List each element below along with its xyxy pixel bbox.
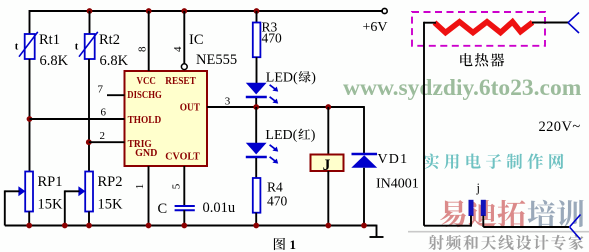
wire contact right lead xyxy=(483,216,569,228)
watermark slogan xyxy=(428,235,443,250)
wire Rt2 top lead xyxy=(89,11,91,34)
wire bottom ground rail xyxy=(5,225,377,227)
wire LED2-R4 xyxy=(255,158,257,179)
wire pin 2 TRIG xyxy=(89,141,125,143)
wire R3 top lead xyxy=(256,11,258,23)
LED D2 red xyxy=(246,143,278,164)
wire VD1 top lead xyxy=(363,106,365,153)
svg-text:GND: GND xyxy=(135,147,157,159)
wire pin 3 OUT net xyxy=(207,106,364,108)
node Rt2-rail xyxy=(87,8,93,14)
wire RP2 bottom lead xyxy=(88,212,90,226)
wire heater left lead down xyxy=(424,22,471,226)
svg-text:3: 3 xyxy=(225,95,231,107)
svg-text:R4: R4 xyxy=(267,180,283,195)
heater dashed enclosure xyxy=(412,12,545,46)
label LED(green) xyxy=(266,71,316,86)
svg-text:470: 470 xyxy=(262,31,283,46)
svg-text:1: 1 xyxy=(290,237,297,252)
svg-text:www.sydzdiy.6to23.com: www.sydzdiy.6to23.com xyxy=(343,75,582,101)
svg-text:CVOLT: CVOLT xyxy=(165,151,200,163)
svg-text:RESET: RESET xyxy=(165,75,196,87)
wire pin 5 CVOLT xyxy=(183,166,185,205)
wire pin 7 DISCHG stub xyxy=(107,94,125,96)
svg-text:LED(: LED( xyxy=(266,71,298,86)
svg-text:Rt2: Rt2 xyxy=(99,32,120,48)
node J-rail xyxy=(325,223,331,229)
wire J bottom lead xyxy=(327,171,329,226)
node RP2-rail xyxy=(86,223,92,229)
svg-text:THOLD: THOLD xyxy=(128,114,162,126)
node VD1-rail xyxy=(361,223,367,229)
wire contact left lead xyxy=(470,216,472,227)
wire pin 6 THOLD xyxy=(30,118,125,120)
svg-text:6.8K: 6.8K xyxy=(40,53,69,69)
label IC NE555 xyxy=(189,32,237,68)
label LED(red) xyxy=(265,128,315,143)
node RP2 wiper-rail xyxy=(62,223,68,229)
capacitor C 0.01u xyxy=(175,206,195,210)
svg-text:IN4001: IN4001 xyxy=(376,177,419,192)
wire top +6V rail xyxy=(30,10,384,12)
wire Rt2-RP2 xyxy=(88,59,90,172)
svg-text:RP2: RP2 xyxy=(98,174,123,190)
svg-text:j: j xyxy=(476,181,480,195)
wire RP2 wiper to rail xyxy=(65,190,80,225)
svg-text:DISCHG: DISCHG xyxy=(127,89,162,101)
svg-text:): ) xyxy=(311,71,316,86)
wire RP1 wiper to rail xyxy=(5,190,20,225)
wire pin 4 RESET xyxy=(183,11,185,64)
wire heater right lead xyxy=(532,22,568,24)
svg-text:RP1: RP1 xyxy=(38,174,63,190)
thermistor Rt2 xyxy=(75,32,98,59)
svg-text:8: 8 xyxy=(137,46,149,52)
node THOLD junction xyxy=(27,116,33,122)
label figure 1 xyxy=(274,237,296,252)
node +6V terminal xyxy=(382,8,387,13)
watermark underline xyxy=(408,231,589,233)
node OUT-LED junction xyxy=(253,104,259,110)
label Rt2 value xyxy=(99,32,129,69)
label RP2 value xyxy=(98,174,124,213)
connector mains bottom xyxy=(570,215,581,240)
node cap-rail xyxy=(181,223,187,229)
potentiometer RP1 xyxy=(18,172,33,212)
svg-text:2: 2 xyxy=(100,130,106,142)
LED D1 green xyxy=(246,83,278,104)
wire VD1 bottom lead xyxy=(363,168,365,226)
svg-text:4: 4 xyxy=(172,46,184,52)
label heater xyxy=(460,53,472,66)
svg-text:15K: 15K xyxy=(98,197,124,213)
heater element resistance wire xyxy=(435,22,533,33)
node RP1-rail xyxy=(26,223,32,229)
relay contact j xyxy=(469,181,486,216)
wire pin 1 GND xyxy=(148,166,150,226)
svg-text:NE555: NE555 xyxy=(196,52,237,68)
wire LED1-out xyxy=(255,98,257,107)
wire J top lead xyxy=(327,107,329,155)
svg-text:t: t xyxy=(15,42,19,53)
node pin4 rail junction xyxy=(181,8,187,14)
resistor R3 xyxy=(253,23,261,58)
wire Rt1-RP1 xyxy=(29,59,31,172)
svg-text:6.8K: 6.8K xyxy=(100,53,129,69)
wire cap bottom lead xyxy=(183,210,185,225)
svg-text:+6V: +6V xyxy=(363,20,388,35)
svg-text:5: 5 xyxy=(171,183,183,189)
svg-text:1: 1 xyxy=(134,184,146,190)
svg-text:LED(: LED( xyxy=(265,128,297,143)
watermark site name xyxy=(423,154,439,169)
svg-text:6: 6 xyxy=(101,107,107,119)
node pin1-rail xyxy=(146,223,152,229)
svg-text:0.01u: 0.01u xyxy=(203,200,236,216)
thermistor Rt1 xyxy=(15,32,38,59)
svg-text:J: J xyxy=(323,157,331,174)
svg-text:7: 7 xyxy=(98,84,104,96)
wire RP1 bottom lead xyxy=(28,212,30,226)
ground xyxy=(370,225,384,237)
resistor R4 xyxy=(253,178,261,213)
node TRIG junction xyxy=(86,139,92,145)
watermark brand big xyxy=(440,200,583,227)
svg-text:C: C xyxy=(158,201,168,217)
svg-text:Rt1: Rt1 xyxy=(39,32,60,48)
node R4-rail xyxy=(253,223,259,229)
wire OUT-LED2 xyxy=(255,107,257,143)
label Rt1 value xyxy=(39,32,69,69)
potentiometer RP2 xyxy=(78,172,93,212)
svg-text:): ) xyxy=(311,128,316,143)
svg-text:t: t xyxy=(75,42,79,53)
wire R3-LED1 xyxy=(256,57,258,83)
node pin8 rail junction xyxy=(146,8,152,14)
svg-text:IC: IC xyxy=(189,32,204,48)
wire R4 bottom lead xyxy=(255,213,257,226)
node OUT-J junction xyxy=(325,104,331,110)
node R3-rail junction xyxy=(254,8,260,14)
svg-text:15K: 15K xyxy=(38,197,64,213)
svg-text:220V~: 220V~ xyxy=(539,119,581,135)
diode VD1 xyxy=(351,154,377,168)
svg-text:470: 470 xyxy=(267,194,288,209)
svg-text:OUT: OUT xyxy=(180,102,201,114)
connector mains top xyxy=(568,13,579,34)
label RP1 value xyxy=(38,174,64,213)
wire Rt1 top lead xyxy=(29,10,31,34)
op-amp U1 IC NE555 body xyxy=(125,71,208,166)
svg-text:VD1: VD1 xyxy=(378,152,409,167)
pin 4 inverting circle xyxy=(181,64,187,70)
relay coil J xyxy=(311,155,344,174)
svg-text:VCC: VCC xyxy=(137,75,156,87)
wire pin 8 VCC xyxy=(148,11,150,71)
